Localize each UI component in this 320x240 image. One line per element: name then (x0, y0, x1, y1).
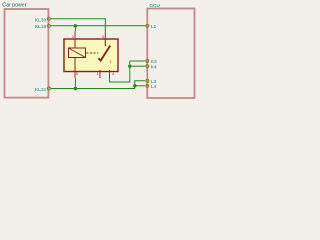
sheet pin KL15 circle (47, 24, 50, 27)
sheet pin KL31 circle (47, 87, 50, 90)
svg-text:GCU: GCU (149, 3, 160, 9)
wire KL30 vertical down to relay common pin (104, 18, 106, 31)
sheet: GCU (147, 9, 194, 99)
sheet pin L1 circle (146, 24, 149, 27)
wire KL31 horizontal (51, 88, 135, 90)
wire branch to K4 (130, 65, 145, 67)
wire coil bottom pin to KL31 (74, 78, 76, 89)
svg-text:Car power: Car power (2, 3, 26, 9)
contact nub NO (inside) (109, 70, 111, 72)
wire KL31 up to L3 (135, 81, 145, 89)
pin NC (bottom, unconnected) (99, 72, 101, 79)
wire relay NO pin down (110, 61, 145, 82)
wire coil top pin drop (74, 26, 76, 32)
sheet: Car power (5, 9, 49, 98)
pin NO (bottom) (109, 72, 111, 79)
svg-text:L1: L1 (151, 24, 157, 30)
svg-text:KL15: KL15 (35, 24, 47, 30)
relay K1 body (64, 39, 118, 72)
contact nub NC (inside) (99, 70, 101, 72)
junction on KL15 at coil pin (74, 24, 77, 27)
wire KL15 horizontal to L1 (51, 25, 145, 27)
sheet pin K3 circle (146, 59, 149, 62)
relay coil rectangle (69, 48, 86, 58)
wire KL30 horizontal (51, 18, 105, 20)
relay coil top stub (inside) (74, 39, 76, 48)
sheet pin KL30 circle (47, 17, 50, 20)
wire branch to L4 (135, 85, 145, 87)
junction on KL31 at coil bottom (74, 87, 77, 90)
sheet pin L4 circle (146, 84, 149, 87)
relay switch blade (99, 46, 111, 61)
pin 3 (common top, outside) (104, 32, 106, 40)
svg-text:KL31: KL31 (35, 87, 47, 93)
sheet pin L3 circle (146, 79, 149, 82)
junction L4 branch (133, 84, 136, 87)
svg-text:L4: L4 (151, 84, 157, 90)
relay dashed actuator link (86, 52, 98, 54)
sheet pin K4 circle (146, 65, 149, 68)
junction K4 branch (128, 65, 131, 68)
relay coil bottom stub (inside) (74, 58, 76, 72)
relay coil diagonal (69, 48, 86, 58)
relay common stub (inside) (104, 39, 106, 46)
svg-text:K3: K3 (151, 59, 157, 65)
svg-text:KL30: KL30 (35, 17, 47, 23)
svg-text:K4: K4 (151, 64, 157, 70)
pin 5 (coil bottom, outside) (74, 72, 76, 79)
pin 2 (coil top, outside) (74, 32, 76, 40)
